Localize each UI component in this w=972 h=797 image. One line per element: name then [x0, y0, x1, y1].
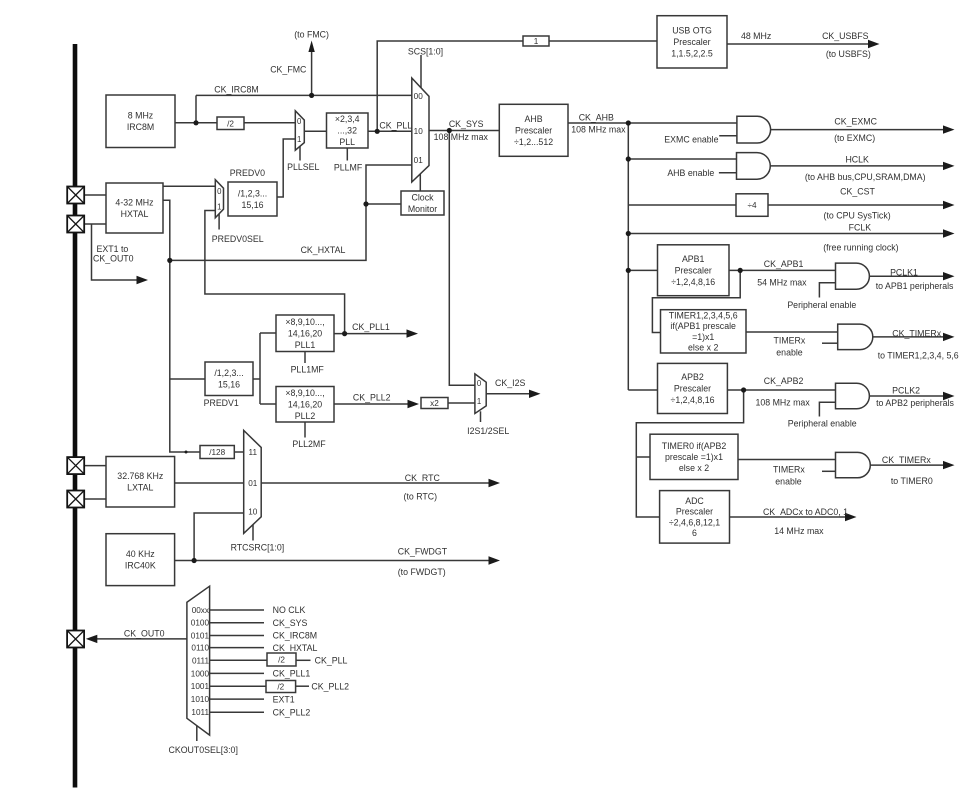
wire AHB bus vertical	[627, 123, 629, 390]
wire CK_APB2	[727, 389, 835, 391]
svg-text:Prescaler: Prescaler	[674, 384, 711, 394]
node APB1 branch	[626, 268, 631, 273]
node CK_SYS branch	[447, 128, 452, 133]
svg-text:CKOUT0SEL[3:0]: CKOUT0SEL[3:0]	[168, 745, 237, 755]
mux CKOUT0SEL	[187, 586, 210, 735]
wire pin1 to HXTAL	[84, 194, 106, 196]
wire CK_IRC8M	[196, 94, 412, 96]
svg-text:SCS[1:0]: SCS[1:0]	[408, 46, 443, 56]
svg-text:CK_RTC: CK_RTC	[405, 473, 441, 483]
svg-text:else x 2: else x 2	[679, 463, 709, 473]
svg-text:Prescaler: Prescaler	[676, 507, 713, 517]
svg-text:Clock: Clock	[412, 192, 435, 202]
svg-text:to TIMER1,2,3,4, 5,6: to TIMER1,2,3,4, 5,6	[878, 350, 959, 360]
wire to PLL1	[260, 332, 276, 334]
svg-text:CK_HXTAL: CK_HXTAL	[273, 643, 318, 653]
arrow CK_OUT0	[86, 635, 98, 643]
wire 1-box to USB prescaler	[549, 40, 657, 42]
node CK_FMC branch	[309, 93, 314, 98]
svg-text:00xx: 00xx	[192, 606, 209, 615]
wire CK_EXMC	[771, 129, 944, 131]
svg-text:HXTAL: HXTAL	[121, 209, 149, 219]
wire CK_PLL up to USB rail	[377, 41, 523, 131]
wire peripheral enable 1	[819, 283, 835, 298]
wire to PLL2	[260, 403, 276, 405]
svg-text:IRC8M: IRC8M	[127, 122, 154, 132]
svg-text:0: 0	[297, 117, 302, 126]
svg-text:APB2: APB2	[681, 372, 704, 382]
svg-text:0100: 0100	[191, 619, 210, 628]
and-gate EXMC enable	[737, 116, 771, 143]
block	[200, 446, 234, 459]
svg-text:(to AHB bus,CPU,SRAM,DMA): (to AHB bus,CPU,SRAM,DMA)	[805, 172, 926, 182]
block	[217, 117, 244, 130]
svg-text:CK_OUT0: CK_OUT0	[124, 628, 165, 638]
svg-text:CK_HXTAL: CK_HXTAL	[301, 245, 346, 255]
svg-text:CK_USBFS: CK_USBFS	[822, 31, 869, 41]
block	[106, 183, 163, 233]
wire to APB2 prescaler	[628, 389, 657, 391]
wire EXT1 to CK_OUT0	[92, 224, 138, 280]
svg-text:0111: 0111	[192, 656, 209, 665]
svg-text:CK_IRC8M: CK_IRC8M	[273, 631, 317, 641]
arrow CK_TIMERx 0	[943, 461, 955, 469]
svg-text:APB1: APB1	[682, 254, 705, 264]
wire CK_PLL2	[334, 403, 409, 405]
arrow FCLK	[943, 229, 955, 237]
svg-text:to APB2 peripherals: to APB2 peripherals	[876, 398, 954, 408]
svg-text:×8,9,10...,: ×8,9,10...,	[285, 317, 324, 327]
wire CKOUT0 mux input row 3	[210, 635, 264, 637]
wire EXMC enable stub	[719, 135, 737, 137]
svg-text:EXT1: EXT1	[273, 694, 295, 704]
svg-text:CK_I2S: CK_I2S	[495, 378, 525, 388]
svg-text:Prescaler: Prescaler	[673, 37, 710, 47]
svg-text:PREDV1: PREDV1	[204, 398, 239, 408]
wire to div4	[628, 204, 736, 206]
wire TIMERx enable stub 1	[822, 342, 838, 344]
svg-text:/2: /2	[227, 119, 234, 128]
wire CK_AHB	[568, 122, 737, 124]
svg-text:00: 00	[414, 92, 424, 101]
svg-text:CK_FMC: CK_FMC	[270, 64, 307, 74]
mux PREDV0SEL	[215, 180, 223, 218]
arrow CK_I2S	[529, 390, 541, 398]
wire CK_I2S	[486, 393, 529, 395]
svg-text:(to USBFS): (to USBFS)	[826, 49, 871, 59]
wire node to CK_IRC8M rail	[195, 95, 197, 122]
svg-text:÷1,2...512: ÷1,2...512	[514, 137, 553, 147]
block	[736, 194, 768, 217]
pin OSC32IN	[67, 457, 84, 474]
and-gate CK_TIMERx TIMER0	[836, 452, 871, 477]
svg-text:32.768 KHz: 32.768 KHz	[117, 471, 163, 481]
wire CK_SYS down to I2S mux	[449, 131, 475, 386]
svg-text:CK_PLL1: CK_PLL1	[273, 669, 311, 679]
wire PREDV0SEL stub	[218, 214, 220, 230]
block	[327, 113, 369, 148]
svg-text:CK_OUT0: CK_OUT0	[93, 253, 134, 263]
svg-text:CK_TIMERx: CK_TIMERx	[892, 328, 941, 338]
wire HXTAL rail to PREDV1	[170, 378, 205, 380]
svg-text:CK_SYS: CK_SYS	[273, 618, 308, 628]
svg-text:CK_ADCx to ADC0, 1: CK_ADCx to ADC0, 1	[763, 507, 848, 517]
arrow PCLK1	[943, 272, 955, 280]
wire CKOUT0 mux input row 6	[210, 672, 264, 674]
mux I2S1/2SEL	[475, 374, 486, 414]
wire CK_PLL /2 stub	[296, 659, 311, 661]
and-gate AHB enable	[737, 153, 771, 180]
svg-text:10: 10	[248, 508, 258, 517]
svg-text:40 KHz: 40 KHz	[126, 549, 155, 559]
svg-text:CK_CST: CK_CST	[840, 186, 875, 196]
wire HCLK	[770, 165, 943, 167]
svg-text:prescale =1)x1: prescale =1)x1	[665, 452, 723, 462]
svg-text:CK_PLL1: CK_PLL1	[352, 322, 390, 332]
svg-text:/2: /2	[278, 656, 285, 665]
node clock monitor branch	[363, 201, 368, 206]
wire CKOUT0 select	[196, 726, 198, 741]
and-gate PCLK2	[836, 383, 870, 408]
svg-text:1: 1	[217, 202, 221, 211]
svg-text:/2: /2	[277, 683, 284, 692]
svg-text:NO CLK: NO CLK	[273, 605, 306, 615]
wire CK_PLL2 /2 stub	[296, 685, 309, 687]
svg-text:PLL1MF: PLL1MF	[291, 365, 325, 375]
arrow CK_USBFS	[868, 40, 880, 48]
svg-text:TIMER0 if(APB2: TIMER0 if(APB2	[662, 441, 727, 451]
node CK_APB1 branch	[738, 268, 743, 273]
wire PLLSEL to PLL	[304, 130, 326, 132]
svg-text:108 MHz max: 108 MHz max	[571, 125, 626, 135]
mux RTCSRC	[244, 430, 262, 533]
svg-text:USB OTG: USB OTG	[672, 26, 712, 36]
svg-text:enable: enable	[776, 347, 803, 357]
svg-text:15,16: 15,16	[241, 200, 263, 210]
svg-text:enable: enable	[775, 477, 802, 487]
wire CK_RTC	[261, 482, 489, 484]
wire rail to TIMER0	[636, 456, 650, 458]
block	[266, 681, 296, 693]
svg-text:1000: 1000	[191, 669, 210, 678]
wire CK_PLL1	[334, 333, 407, 335]
svg-text:÷4: ÷4	[747, 201, 756, 210]
block	[661, 310, 747, 353]
svg-text:RTCSRC[1:0]: RTCSRC[1:0]	[231, 543, 285, 553]
svg-text:1011: 1011	[191, 708, 209, 717]
wire IRC40K to RTCSRC 10	[194, 513, 244, 561]
wire CKOUT0 mux input row 1	[210, 609, 264, 611]
block	[658, 363, 728, 413]
svg-text:CK_EXMC: CK_EXMC	[834, 117, 877, 127]
block	[658, 245, 730, 296]
svg-text:PREDV0: PREDV0	[230, 168, 265, 178]
wire CKOUT0 mux input row 2	[210, 622, 264, 624]
svg-text:PCLK1: PCLK1	[890, 267, 918, 277]
svg-text:0101: 0101	[191, 632, 210, 641]
svg-text:(to FWDGT): (to FWDGT)	[398, 567, 446, 577]
arrow CK_PLL1	[407, 329, 419, 337]
mux SCS system clock	[412, 78, 429, 182]
svg-text:(to EXMC): (to EXMC)	[834, 133, 875, 143]
svg-text:ADC: ADC	[685, 496, 704, 506]
wire CKOUT0 mux input 0111	[210, 659, 267, 661]
pin OSCIN	[67, 187, 84, 204]
wire /128 to RTCSRC 11	[234, 451, 243, 453]
svg-text:14,16,20: 14,16,20	[288, 399, 322, 409]
wire SCS select	[420, 55, 422, 88]
svg-text:CK_AHB: CK_AHB	[579, 113, 614, 123]
svg-text:to APB1 peripherals: to APB1 peripherals	[876, 281, 954, 291]
node CK_HXTAL branch	[167, 258, 172, 263]
svg-text:÷1,2,4,8,16: ÷1,2,4,8,16	[671, 277, 715, 287]
block	[657, 16, 727, 68]
svg-text:1001: 1001	[191, 682, 210, 691]
svg-text:CK_PLL: CK_PLL	[379, 121, 412, 131]
svg-text:14,16,20: 14,16,20	[288, 328, 322, 338]
wire PCLK2	[869, 395, 943, 397]
svg-text:Prescaler: Prescaler	[515, 125, 552, 135]
arrow CK_EXMC	[943, 125, 955, 133]
wire CK_APB1	[729, 269, 836, 271]
svg-text:PCLK2: PCLK2	[892, 385, 920, 395]
wire PLLSEL stub	[299, 147, 301, 161]
wire PREDV1 out	[253, 378, 260, 380]
svg-text:1: 1	[297, 135, 301, 144]
svg-text:108 MHz max: 108 MHz max	[755, 397, 810, 407]
svg-text:CK_PLL: CK_PLL	[315, 656, 348, 666]
svg-text:/128: /128	[209, 448, 225, 457]
wire CK_HXTAL to SCS 01	[170, 165, 412, 260]
node IRC40K branch	[192, 558, 197, 563]
svg-text:CK_SYS: CK_SYS	[449, 119, 484, 129]
wire CK_PLL	[368, 130, 412, 132]
wire CK_OUT0	[97, 638, 187, 640]
wire node to clock monitor	[366, 203, 401, 205]
svg-text:PLL1: PLL1	[295, 340, 316, 350]
wire x2 to I2S mux 1	[448, 402, 475, 404]
svg-text:...,32: ...,32	[337, 126, 357, 136]
svg-text:54 MHz max: 54 MHz max	[757, 278, 807, 288]
node CK_AHB branch	[626, 120, 631, 125]
arrow CK_TIMERx 1	[943, 333, 955, 341]
wire HXTAL down rail	[163, 200, 200, 452]
svg-text:CK_TIMERx: CK_TIMERx	[882, 455, 931, 465]
wire HXTAL to PREDV0 mux 0	[163, 185, 215, 187]
svg-text:PREDV0SEL: PREDV0SEL	[212, 234, 264, 244]
svg-text:(to CPU SysTick): (to CPU SysTick)	[824, 210, 891, 220]
wire TIMER0 out	[738, 459, 836, 461]
svg-text:AHB enable: AHB enable	[667, 168, 714, 178]
wire pin3 to LXTAL	[84, 465, 106, 467]
wire I2S select	[480, 411, 482, 422]
svg-text:0: 0	[477, 379, 482, 388]
wire CK_TIMERx 1	[873, 336, 944, 338]
svg-text:0110: 0110	[191, 644, 209, 653]
wire LXTAL to RTCSRC 01	[175, 482, 244, 484]
arrow CK_FWDGT	[489, 556, 501, 564]
svg-text:CK_APB2: CK_APB2	[764, 376, 804, 386]
svg-text:PLL2MF: PLL2MF	[292, 439, 326, 449]
block	[499, 104, 568, 156]
svg-text:Peripheral enable: Peripheral enable	[787, 300, 856, 310]
svg-text:(to FMC): (to FMC)	[294, 29, 329, 39]
wire TIMER1 out	[746, 331, 838, 333]
wire CKOUT0 mux input 1001	[210, 685, 266, 687]
wire CK_FWDGT	[175, 560, 490, 562]
svg-text:1: 1	[477, 397, 481, 406]
wire PLL1/PLL2 branch vertical	[259, 333, 261, 404]
arrow EXT1	[137, 276, 149, 284]
arrow to FMC	[308, 41, 314, 53]
svg-text:TIMERx: TIMERx	[774, 336, 806, 346]
svg-text:1,1.5,2,2.5: 1,1.5,2,2.5	[671, 49, 713, 59]
block	[650, 434, 738, 479]
svg-text:11: 11	[249, 448, 258, 457]
wire CK_TIMERx 0	[870, 464, 943, 466]
arrow CK_PLL2	[408, 400, 420, 408]
svg-text:PLL: PLL	[339, 137, 355, 147]
pin OSC32OUT	[67, 491, 84, 508]
svg-text:EXT1 to: EXT1 to	[97, 244, 129, 254]
svg-text:EXMC enable: EXMC enable	[664, 134, 718, 144]
wire CK_SYS	[429, 130, 499, 132]
node CK_PLL1 branch	[342, 331, 347, 336]
wire CKOUT0 mux input row 8	[210, 698, 264, 700]
svg-text:8 MHz: 8 MHz	[128, 111, 153, 121]
svg-text:FCLK: FCLK	[849, 222, 872, 232]
svg-text:CK_APB1: CK_APB1	[764, 259, 804, 269]
svg-text:CK_PLL2: CK_PLL2	[353, 392, 391, 402]
wire PLLMF stub	[346, 148, 348, 161]
wire PLL1MF stub	[304, 352, 306, 364]
wire to AHB enable gate	[628, 158, 736, 160]
svg-text:4-32 MHz: 4-32 MHz	[115, 197, 153, 207]
svg-text:/1,2,3...: /1,2,3...	[238, 188, 267, 198]
svg-text:=1)x1: =1)x1	[692, 332, 714, 342]
svg-text:108 MHz max: 108 MHz max	[434, 132, 489, 142]
svg-text:01: 01	[248, 479, 258, 488]
wire to APB1 prescaler	[628, 269, 657, 271]
wire PREDV0 out to PLLSEL 1	[277, 139, 295, 197]
node CK_APB2 branch	[741, 387, 746, 392]
svg-text:PLL2: PLL2	[295, 411, 316, 421]
block	[205, 362, 253, 396]
svg-text:÷2,4,6,8,12,1: ÷2,4,6,8,12,1	[669, 517, 720, 527]
wire clock monitor to SCS mux	[419, 174, 421, 191]
svg-text:CK_FWDGT: CK_FWDGT	[398, 547, 448, 557]
svg-text:x2: x2	[430, 399, 439, 408]
arrow HCLK	[943, 162, 955, 170]
node CK_PLL branch	[375, 129, 380, 134]
block	[421, 398, 448, 409]
svg-text:CK_PLL2: CK_PLL2	[311, 681, 349, 691]
block	[228, 182, 277, 216]
svg-text:AHB: AHB	[525, 114, 543, 124]
wire AHB enable stub	[719, 172, 737, 174]
svg-text:1: 1	[534, 37, 539, 46]
arrow CK_CST	[943, 201, 955, 209]
svg-text:TIMERx: TIMERx	[773, 465, 805, 475]
mux PLLSEL	[295, 111, 304, 150]
block	[276, 387, 334, 423]
svg-text:(to RTC): (to RTC)	[404, 491, 438, 501]
wire pin4 to LXTAL	[84, 498, 106, 500]
wire CK_APB2 to TIMER0/ADC rail	[636, 390, 743, 517]
svg-text:Monitor: Monitor	[408, 204, 437, 214]
wire PCLK1	[869, 275, 943, 277]
block	[106, 457, 175, 508]
wire CK_APB1 to TIMER1 block	[652, 270, 740, 332]
block	[523, 36, 549, 46]
svg-text:Prescaler: Prescaler	[675, 265, 712, 275]
wire CKOUT0 mux input row 9	[210, 711, 264, 713]
svg-text:(free running clock): (free running clock)	[823, 242, 898, 252]
wire CK_USBFS	[727, 43, 869, 45]
block	[660, 491, 730, 543]
wire TIMERx enable stub 2	[822, 470, 836, 472]
svg-text:HCLK: HCLK	[845, 155, 869, 165]
svg-text:÷1,2,4,8,16: ÷1,2,4,8,16	[671, 395, 715, 405]
pin CK_OUT0	[67, 631, 84, 648]
svg-text:PLLSEL: PLLSEL	[287, 162, 319, 172]
wire FCLK	[628, 233, 943, 235]
block	[276, 315, 334, 352]
svg-text:to TIMER0: to TIMER0	[891, 476, 933, 486]
block	[106, 534, 175, 586]
arrow CK_ADCx	[845, 513, 857, 521]
arrow CK_RTC	[489, 479, 501, 487]
node FCLK branch	[626, 231, 631, 236]
svg-text:CK_IRC8M: CK_IRC8M	[214, 84, 258, 94]
block	[401, 191, 444, 215]
svg-text:×2,3,4: ×2,3,4	[335, 114, 360, 124]
wire CK_FMC up	[311, 50, 313, 95]
svg-text:CK_PLL2: CK_PLL2	[273, 707, 311, 717]
wire CK_PLL1 feedback to PREDV0SEL 1	[205, 211, 345, 334]
svg-text:IRC40K: IRC40K	[125, 561, 156, 571]
and-gate CK_TIMERx APB1	[838, 324, 873, 350]
svg-text:01: 01	[414, 156, 424, 165]
node /128 input	[185, 451, 188, 454]
wire pin2 to HXTAL	[84, 223, 106, 225]
svg-text:6: 6	[692, 528, 697, 538]
wire CK_ADCx	[730, 516, 847, 518]
node IRC8M branch	[193, 120, 198, 125]
block	[106, 95, 175, 148]
svg-text:TIMER1,2,3,4,5,6: TIMER1,2,3,4,5,6	[669, 310, 738, 320]
pin OSCOUT	[67, 216, 84, 233]
svg-text:else x 2: else x 2	[688, 343, 718, 353]
svg-text:/1,2,3...: /1,2,3...	[214, 368, 243, 378]
svg-text:I2S1/2SEL: I2S1/2SEL	[467, 426, 509, 436]
svg-text:Peripheral enable: Peripheral enable	[788, 419, 857, 429]
and-gate PCLK1	[836, 263, 870, 289]
block	[267, 653, 296, 666]
svg-text:48 MHz: 48 MHz	[741, 31, 771, 41]
svg-text:15,16: 15,16	[218, 380, 240, 390]
arrow PCLK2	[943, 392, 955, 400]
wire /2 to PLLSEL 0	[244, 122, 295, 124]
svg-text:×8,9,10...,: ×8,9,10...,	[285, 388, 324, 398]
wire CKOUT0 mux input row 4	[210, 647, 264, 649]
svg-text:14 MHz max: 14 MHz max	[774, 526, 824, 536]
wire PLL2MF stub	[304, 422, 306, 438]
svg-text:1010: 1010	[191, 695, 210, 704]
wire peripheral enable 2	[819, 402, 835, 416]
wire RTCSRC select	[252, 525, 254, 541]
node AHB enable branch	[626, 156, 631, 161]
